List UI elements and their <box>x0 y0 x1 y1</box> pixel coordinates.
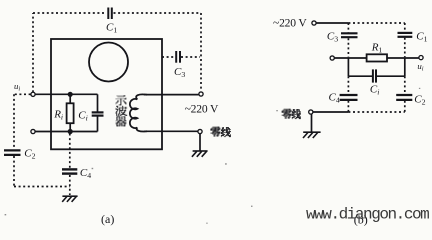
wire: top line solid from 220V terminal <box>316 22 348 24</box>
wire: bottom rail right (coil to neutral terminal) <box>144 130 198 132</box>
node dot top <box>68 92 73 97</box>
capacitor C1 (b) plates <box>398 33 413 37</box>
resistor Ri body <box>67 103 74 123</box>
svg-text:C1: C1 <box>416 30 427 43</box>
svg-text:C2: C2 <box>414 93 425 106</box>
wire dashed: C4 column below <box>347 101 349 112</box>
wire: Ci loop left <box>348 75 372 77</box>
wire dashed: junction down to C4 <box>69 134 71 169</box>
terminal left mid (b) <box>330 56 334 60</box>
capacitor C2 (horizontal plates) <box>4 150 21 155</box>
capacitor C1 (top, vertical plates) <box>108 8 112 20</box>
svg-text:(a): (a) <box>101 212 114 226</box>
svg-text:Ci: Ci <box>370 83 380 96</box>
label neutral 零线 (b) <box>282 109 292 119</box>
wire: Ci loop right <box>377 75 405 77</box>
wire: C3 node down to Ci loop <box>347 58 349 76</box>
wire dashed: left vertical down to C2 <box>13 94 15 149</box>
wire: top rail from ui terminal to Ci <box>35 93 97 95</box>
wire dashed: top line to C1 column <box>348 22 404 24</box>
svg-text:C2: C2 <box>24 148 35 161</box>
wire dashed: C3 branch to right vertical <box>181 56 200 58</box>
capacitor Ci (b) plates <box>373 69 376 82</box>
ground (right of a) <box>192 151 208 157</box>
capacitor C3 (right, vertical plates) <box>176 51 180 63</box>
wire: mid rail left <box>335 57 367 59</box>
wire dashed: C1 column below <box>404 38 406 58</box>
ground (below C4) <box>62 196 77 202</box>
wire dashed: C4 to ground <box>69 175 71 195</box>
wire: neutral terminal to ground <box>199 134 201 151</box>
wire dashed: C3 column above <box>347 23 349 33</box>
svg-text:C4: C4 <box>80 167 91 180</box>
wire: bottom rail from lower terminal to Ci <box>35 131 97 133</box>
wire: neutral terminal to ground (b) <box>311 114 313 132</box>
svg-text:Ri: Ri <box>53 108 63 121</box>
wire dashed: bottom rail dotted <box>348 111 404 113</box>
resistor Ri vertical stubs <box>69 94 71 103</box>
svg-text:Ci: Ci <box>78 110 88 123</box>
scan noise specks <box>5 88 421 224</box>
terminal ui (b) <box>419 56 423 60</box>
wire dashed: ui terminal up to top line <box>32 13 34 92</box>
capacitor C4 (b) plates <box>340 95 358 100</box>
wire dashed: C3 column below <box>347 38 349 57</box>
terminal ui top <box>31 92 35 96</box>
capacitor C4 (horizontal plates) <box>62 169 77 173</box>
svg-text:C3: C3 <box>327 30 338 43</box>
wire dashed: C1 column above <box>404 23 406 32</box>
wire dashed: below C2 down <box>13 156 15 187</box>
wire: C1 node down to Ci loop <box>404 58 406 76</box>
wire dashed: top line left of C1 <box>33 12 107 14</box>
terminal ui bottom <box>31 129 35 133</box>
wire dashed: ui terminal left stub <box>14 93 31 95</box>
terminal 220V (b) <box>312 21 316 25</box>
svg-text:~220 V: ~220 V <box>185 102 219 115</box>
node dot bottom <box>68 129 73 134</box>
wire: bottom rail solid <box>313 111 348 113</box>
svg-text:C3: C3 <box>174 66 185 79</box>
capacitor C2 (b) plates <box>396 95 412 100</box>
wire dashed: bottom horizontal to C4 branch <box>14 186 70 188</box>
wire dashed: top line right of C1 <box>114 12 202 14</box>
svg-text:ui: ui <box>417 61 423 73</box>
wire: mid rail right <box>387 57 419 59</box>
terminal neutral (a) <box>198 129 202 133</box>
capacitor C3 (b) plates <box>341 33 358 37</box>
terminal 220V <box>199 92 203 96</box>
resistor R1 body <box>367 54 387 61</box>
terminal neutral (b) <box>309 110 313 114</box>
wire dashed: C3 branch from box edge <box>162 56 175 58</box>
wire dashed: right vertical down to 220V terminal <box>200 13 202 91</box>
oscilloscope box <box>51 39 162 149</box>
ground (b) <box>303 132 321 138</box>
CRT screen circle <box>89 43 128 82</box>
svg-text:C4: C4 <box>329 92 340 105</box>
label neutral 零线 (a) <box>210 127 220 137</box>
transformer coil winding <box>130 94 147 131</box>
capacitor Ci plates <box>92 112 104 115</box>
svg-text:R1: R1 <box>371 42 383 55</box>
capacitor Ci stubs <box>97 94 99 111</box>
wire: top rail right (coil to 220V terminal) <box>144 94 199 96</box>
svg-text:www.diangon.com: www.diangon.com <box>306 206 429 224</box>
wire dashed: C2 column below <box>404 101 406 112</box>
svg-text:~220 V: ~220 V <box>273 17 307 30</box>
svg-text:C1: C1 <box>106 22 117 35</box>
label oscilloscope text 示波器 <box>115 95 301 137</box>
wire dashed: C4 column above <box>347 76 349 94</box>
wire dashed: C2 column above <box>404 76 406 94</box>
svg-text:ui: ui <box>14 81 20 93</box>
